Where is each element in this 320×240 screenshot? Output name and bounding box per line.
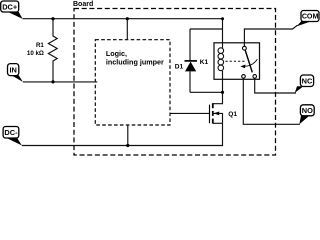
svg-text:K1: K1 [200,59,209,66]
svg-text:NO: NO [302,106,313,115]
svg-text:DC-: DC- [4,128,18,137]
svg-text:Board: Board [73,1,93,8]
svg-text:10 kΩ: 10 kΩ [27,50,44,57]
svg-text:COM: COM [302,13,319,21]
svg-text:NC: NC [302,77,313,86]
svg-text:D1: D1 [175,63,184,70]
svg-text:R1: R1 [36,42,44,49]
svg-text:Q1: Q1 [228,111,237,118]
svg-text:including jumper: including jumper [106,57,164,66]
svg-text:IN: IN [9,65,16,74]
svg-text:DC+: DC+ [2,2,18,11]
